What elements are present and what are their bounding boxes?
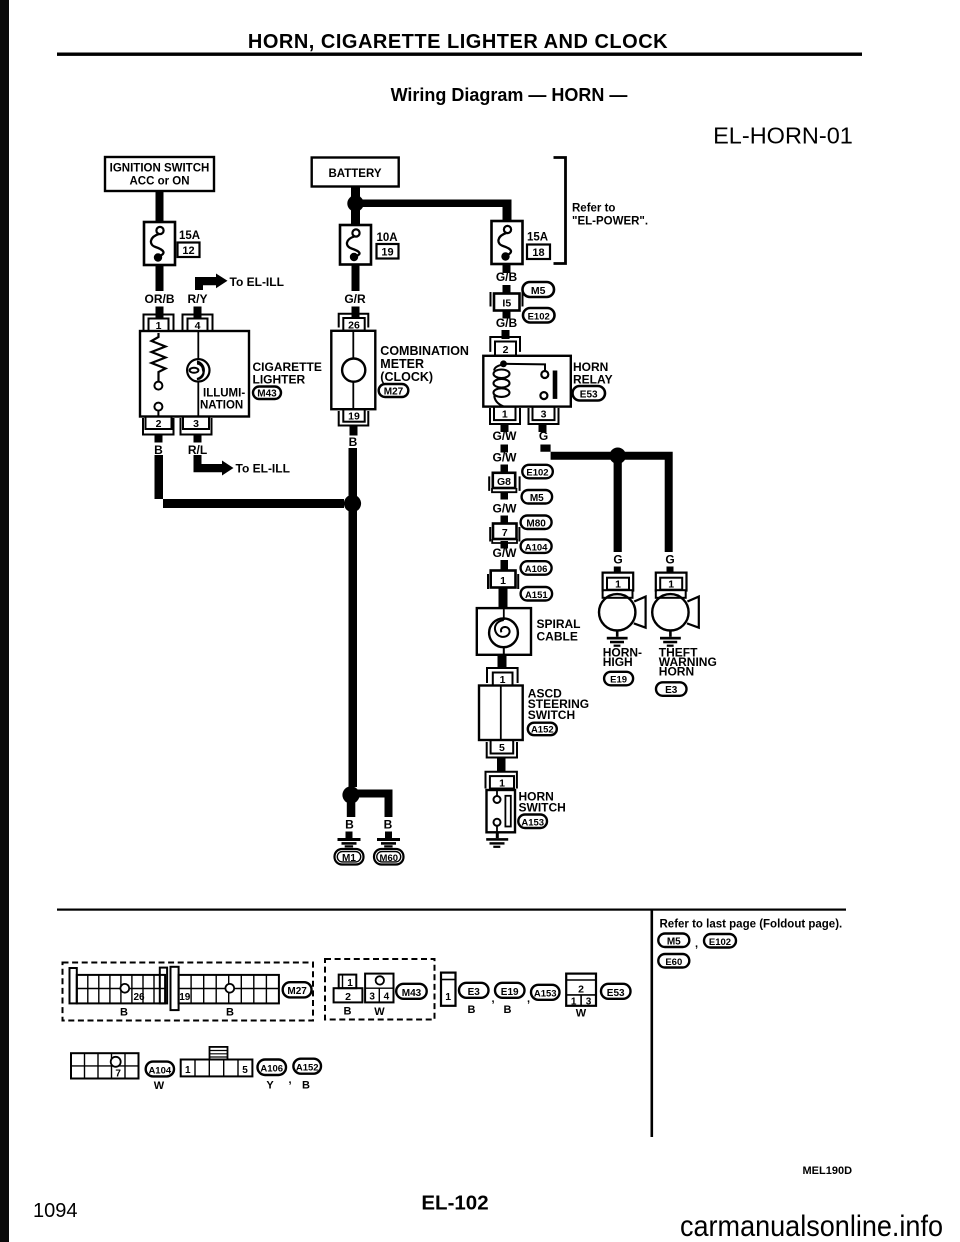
- spiral symbol: [489, 608, 518, 655]
- svg-text:B: B: [468, 1004, 476, 1016]
- wire label G/W 4: [493, 546, 518, 560]
- COMBINATION METER (CLOCK) label: [380, 344, 469, 384]
- svg-text:ACC or ON: ACC or ON: [129, 176, 189, 188]
- wire ignition to fuse: [156, 191, 164, 222]
- svg-text:B: B: [349, 435, 358, 449]
- svg-text:2: 2: [578, 984, 584, 996]
- stub to relay pin 2: [502, 330, 510, 339]
- connector oval E3: [656, 682, 687, 696]
- theft horn stub: [667, 567, 674, 574]
- A104 label W: [154, 1080, 165, 1092]
- svg-text:W: W: [576, 1008, 587, 1020]
- connector strip A106: [181, 1047, 253, 1077]
- wire label G/B upper: [496, 270, 518, 284]
- theft warning horn symbol: [652, 590, 699, 630]
- svg-text:1094: 1094: [33, 1200, 78, 1222]
- horn high symbol: [599, 590, 646, 630]
- wire label G/W 2: [493, 451, 518, 465]
- svg-text:G/W: G/W: [493, 451, 518, 465]
- To EL-ILL arrow lower: [194, 455, 290, 476]
- junction lighter-meter: [344, 495, 361, 512]
- connector oval E60 note: [658, 954, 689, 968]
- svg-text:3: 3: [369, 992, 375, 1003]
- connector oval M43 bottom: [396, 984, 427, 999]
- connector oval A106 bottom: [258, 1060, 287, 1076]
- fuse 18 labels: [527, 232, 550, 260]
- connector oval E102 top: [523, 308, 555, 323]
- junction bottom split: [342, 786, 359, 803]
- A152 label B: [302, 1080, 310, 1092]
- svg-text:M5: M5: [530, 493, 544, 504]
- svg-text:G8: G8: [497, 476, 511, 488]
- spiral cable box: [477, 608, 531, 655]
- ASCD steering switch box: [479, 686, 523, 741]
- G/W stub 2: [501, 465, 509, 473]
- branch to M60 ground: [356, 790, 393, 818]
- svg-text:M43: M43: [402, 988, 422, 999]
- ILLUMI-NATION label: [200, 388, 245, 412]
- svg-text:2: 2: [156, 418, 162, 430]
- svg-text:A152: A152: [531, 725, 554, 736]
- pin 1 horn relay: [490, 407, 520, 424]
- svg-text:5: 5: [242, 1065, 248, 1076]
- connector oval M5 top: [523, 282, 555, 297]
- svg-text:,: ,: [492, 993, 495, 1005]
- inline connector 7: [490, 524, 519, 544]
- meter B wire down: [349, 448, 358, 787]
- svg-text:E19: E19: [610, 675, 627, 686]
- svg-text:HIGH: HIGH: [603, 655, 633, 669]
- svg-text:A104: A104: [525, 542, 548, 553]
- svg-text:IGNITION SWITCH: IGNITION SWITCH: [110, 163, 210, 175]
- inline connector G8: [489, 473, 519, 492]
- svg-text:G: G: [665, 553, 674, 567]
- svg-text:1: 1: [500, 674, 506, 686]
- pin 3 stub: [194, 435, 202, 443]
- svg-text:E102: E102: [528, 312, 550, 323]
- wire fuse 19 down: [352, 265, 360, 292]
- ground horn high: [607, 631, 628, 647]
- svg-text:A153: A153: [534, 989, 557, 1000]
- ground horn switch: [486, 832, 508, 848]
- HORN RELAY label: [573, 360, 613, 387]
- svg-text:2: 2: [503, 344, 509, 356]
- svg-text:E102: E102: [526, 468, 548, 479]
- svg-text:B: B: [345, 818, 354, 832]
- stub to connector 1: [501, 560, 509, 570]
- svg-text:19: 19: [179, 992, 191, 1003]
- svg-text:W: W: [154, 1080, 165, 1092]
- CIGARETTE LIGHTER label: [253, 360, 322, 387]
- svg-text:SWITCH: SWITCH: [519, 801, 566, 815]
- svg-text:OR/B: OR/B: [145, 292, 175, 306]
- wire label G/B lower: [496, 316, 518, 330]
- svg-text:EL-HORN-01: EL-HORN-01: [713, 123, 853, 149]
- svg-text:E53: E53: [580, 390, 598, 401]
- svg-text:BATTERY: BATTERY: [328, 168, 381, 180]
- battery feed line to right fuse: [356, 200, 512, 223]
- connector M43 B label: [344, 1006, 352, 1018]
- fuse 19 labels: [377, 232, 399, 259]
- svg-text:B: B: [384, 818, 393, 832]
- svg-text:18: 18: [532, 247, 544, 259]
- ground theft horn: [660, 631, 681, 647]
- wire label B meter: [349, 435, 358, 449]
- svg-text:1: 1: [615, 579, 621, 591]
- svg-text:B: B: [302, 1080, 310, 1092]
- ignition switch box: [105, 157, 214, 191]
- connector grid M27 right: [171, 967, 279, 1010]
- stub to connector 7: [501, 516, 509, 524]
- svg-text:,: ,: [527, 993, 530, 1005]
- connector M43 W label: [374, 1006, 385, 1018]
- wire B from lighter to junction: [155, 455, 345, 508]
- svg-text:3: 3: [541, 409, 547, 421]
- pin 1 cigarette lighter stub: [156, 307, 164, 319]
- pin 3 relay stub: [539, 424, 547, 432]
- ground M1 symbol: [338, 832, 361, 848]
- stub below I5: [503, 311, 511, 319]
- wire label R/L: [188, 443, 207, 457]
- svg-text:EL-102: EL-102: [421, 1192, 488, 1215]
- bottom vertical divider: [651, 910, 654, 1137]
- page code EL-102: [421, 1192, 488, 1215]
- connector oval A153: [518, 815, 547, 829]
- svg-text:B: B: [154, 443, 163, 457]
- connector oval E3 bottom: [459, 983, 489, 998]
- svg-text:"EL-POWER".: "EL-POWER".: [572, 216, 648, 228]
- connector oval E102 mid: [522, 465, 553, 479]
- svg-text:M27: M27: [287, 986, 307, 997]
- stub to I5 connector: [503, 285, 511, 294]
- connector oval A152 bottom: [293, 1059, 321, 1074]
- connector M43 W part: [365, 974, 393, 1003]
- battery box: [312, 158, 399, 187]
- pin 1 horn high: [603, 573, 634, 592]
- pin 4 cigarette lighter stub: [194, 307, 202, 319]
- svg-text:1: 1: [502, 409, 508, 421]
- pin 19 stub: [350, 426, 358, 436]
- svg-text:A106: A106: [525, 564, 548, 575]
- pin 3 cigarette lighter: [181, 417, 212, 435]
- E3 label B: [468, 993, 495, 1016]
- wire label G/R: [344, 292, 366, 306]
- connector oval E53 bottom: [601, 984, 631, 999]
- diagram code EL-HORN-01: [713, 123, 853, 149]
- svg-text:1: 1: [445, 991, 451, 1003]
- G8 stub below: [501, 493, 509, 500]
- pin 1 ASCD: [487, 668, 518, 686]
- wire label B ground M60: [384, 818, 393, 832]
- svg-text:M5: M5: [531, 285, 546, 297]
- svg-text:MEL190D: MEL190D: [803, 1165, 853, 1177]
- svg-text:Refer to: Refer to: [572, 203, 615, 215]
- page title: [248, 31, 668, 53]
- svg-text:E60: E60: [665, 957, 682, 968]
- svg-text:G: G: [613, 553, 622, 567]
- svg-text:carmanualsonline.info: carmanualsonline.info: [680, 1210, 943, 1242]
- svg-text:10A: 10A: [377, 232, 398, 244]
- svg-text:W: W: [374, 1006, 385, 1018]
- svg-text:G/W: G/W: [493, 502, 518, 516]
- svg-text:,: ,: [695, 938, 698, 950]
- HORN SWITCH label: [519, 790, 566, 815]
- svg-text:1: 1: [499, 778, 505, 790]
- svg-text:1: 1: [185, 1065, 191, 1076]
- svg-text:Wiring Diagram — HORN —: Wiring Diagram — HORN —: [391, 85, 628, 105]
- G/W stub 1: [501, 445, 509, 453]
- left page edge black strip: [0, 0, 9, 1242]
- inline connector I5: [491, 292, 523, 311]
- pin 1 relay stub: [501, 424, 509, 432]
- resistor and switch inside lighter: [152, 333, 166, 417]
- HORN-HIGH label: [603, 645, 642, 669]
- svg-text:HORN, CIGARETTE LIGHTER AND CL: HORN, CIGARETTE LIGHTER AND CLOCK: [248, 31, 668, 53]
- pin 1 cigarette lighter: [144, 315, 174, 333]
- svg-text:A106: A106: [260, 1064, 283, 1075]
- svg-text:4: 4: [384, 992, 390, 1003]
- pin 26 stub: [352, 307, 360, 319]
- refer to EL-POWER bracket: [554, 158, 566, 264]
- pin 2 horn relay: [490, 337, 520, 356]
- connector single E3/E19: [441, 973, 456, 1006]
- refer to EL-POWER text: [572, 203, 648, 228]
- svg-text:To EL-ILL: To EL-ILL: [230, 275, 284, 289]
- connector E53 grid: [566, 974, 596, 1008]
- connector oval A151: [521, 587, 553, 601]
- pin 1 horn switch: [486, 772, 517, 790]
- pin 2 cigarette lighter: [143, 417, 174, 435]
- svg-text:B: B: [504, 1004, 512, 1016]
- To EL-ILL arrow upper: [195, 274, 284, 291]
- svg-text:RELAY: RELAY: [573, 373, 613, 387]
- pin 3 horn relay: [529, 407, 559, 424]
- svg-text:E53: E53: [607, 988, 625, 999]
- connector oval M5 mid: [522, 490, 553, 504]
- svg-text:E102: E102: [709, 937, 731, 948]
- svg-text:A153: A153: [521, 818, 544, 829]
- svg-text:M1: M1: [342, 853, 356, 864]
- svg-text:M5: M5: [667, 937, 681, 948]
- fuse 15A 12: [144, 222, 175, 265]
- wire label B ground M1: [345, 818, 354, 832]
- svg-text:A151: A151: [525, 590, 548, 601]
- connector oval M80: [521, 516, 552, 530]
- svg-text:B: B: [344, 1006, 352, 1018]
- svg-text:B: B: [226, 1007, 234, 1019]
- svg-text:5: 5: [499, 742, 505, 754]
- svg-text:M27: M27: [384, 387, 404, 398]
- svg-text:7: 7: [502, 527, 508, 539]
- wire fuse 18 down: [503, 264, 511, 273]
- svg-text:NATION: NATION: [200, 400, 243, 412]
- svg-text:G/B: G/B: [496, 316, 518, 330]
- grid M27 right label B: [226, 1007, 234, 1019]
- pin 4 cigarette lighter: [183, 315, 213, 333]
- svg-text:COMBINATION: COMBINATION: [380, 344, 469, 358]
- connector oval A153 bottom: [531, 985, 560, 1000]
- wire label OR/B: [145, 292, 175, 306]
- svg-text:15A: 15A: [527, 232, 548, 244]
- E53 label W: [576, 1008, 587, 1020]
- horn high stub: [614, 567, 621, 574]
- wire ASCD to horn switch: [497, 758, 506, 772]
- junction G wire: [610, 448, 626, 464]
- pin 5 ASCD: [487, 740, 517, 758]
- clock symbol inside meter: [342, 331, 365, 409]
- connector grid M27 left: [70, 968, 168, 1004]
- connector oval A104: [521, 539, 552, 553]
- connector oval M43: [253, 387, 281, 400]
- connector oval E53: [573, 386, 606, 401]
- connector oval E102 note: [704, 934, 736, 948]
- svg-text:SWITCH: SWITCH: [528, 708, 575, 722]
- svg-text:LIGHTER: LIGHTER: [253, 373, 306, 387]
- svg-text:12: 12: [182, 245, 194, 257]
- wire junction to fuse 19: [351, 208, 360, 225]
- svg-text:R/L: R/L: [188, 443, 207, 457]
- svg-text:M43: M43: [257, 389, 277, 400]
- svg-text:3: 3: [193, 418, 199, 430]
- svg-text:19: 19: [381, 247, 393, 259]
- wire label G/W 3: [493, 502, 518, 516]
- wire fuse to OR/B: [156, 265, 164, 291]
- svg-text:E3: E3: [468, 987, 481, 998]
- wire label G horn high: [613, 553, 622, 567]
- wire label G relay: [539, 429, 548, 443]
- connector grid A104: [71, 1053, 139, 1079]
- dashed group box M27: [63, 963, 314, 1021]
- wire connector 1 to spiral cable: [499, 588, 508, 609]
- connector oval M5 note: [658, 934, 698, 951]
- stub below connector 7: [501, 541, 509, 549]
- wire label G/W relay: [493, 429, 518, 443]
- wire label R/Y: [187, 292, 207, 306]
- ground connector M60: [374, 849, 404, 865]
- connector M43 B part: [334, 975, 363, 1003]
- horn relay box: [483, 356, 571, 407]
- svg-text:G: G: [539, 429, 548, 443]
- svg-text:E19: E19: [501, 987, 519, 998]
- E19 label B: [504, 993, 531, 1016]
- page number 1094: [33, 1200, 78, 1222]
- ground connector M1: [335, 849, 364, 865]
- figure code MEL190D: [803, 1165, 853, 1177]
- svg-text:CABLE: CABLE: [537, 630, 578, 644]
- pin 2 stub: [155, 435, 163, 443]
- wire below junction to M1: [347, 802, 356, 817]
- svg-text:3: 3: [586, 996, 592, 1007]
- svg-text:M80: M80: [526, 519, 546, 530]
- svg-text:G/W: G/W: [493, 429, 518, 443]
- branch to horn high: [614, 460, 622, 552]
- junction battery feed: [347, 195, 363, 211]
- connector oval A152: [528, 723, 557, 736]
- ASCD STEERING SWITCH label: [528, 687, 589, 722]
- svg-text:2: 2: [345, 991, 351, 1003]
- G wire from relay to horns: [540, 445, 672, 553]
- svg-text:I5: I5: [502, 298, 511, 310]
- connector oval A104 bottom: [146, 1062, 174, 1077]
- cigarette lighter box: [140, 331, 249, 417]
- svg-text:19: 19: [348, 411, 360, 423]
- svg-text:1: 1: [500, 575, 506, 587]
- svg-text:G/B: G/B: [496, 270, 518, 284]
- svg-text:1: 1: [668, 579, 674, 591]
- svg-text:26: 26: [133, 992, 145, 1003]
- connector oval A106: [521, 561, 552, 575]
- svg-text:G/R: G/R: [344, 292, 366, 306]
- SPIRAL CABLE label: [537, 617, 581, 644]
- svg-text:HORN: HORN: [659, 665, 694, 679]
- illumination lamp inside lighter: [187, 331, 209, 417]
- svg-text:Refer to last page (Foldout pa: Refer to last page (Foldout page).: [660, 919, 843, 931]
- connector oval E19 bottom: [495, 983, 525, 998]
- bottom separator line: [57, 909, 846, 911]
- svg-text:7: 7: [115, 1069, 121, 1080]
- svg-text:Y: Y: [266, 1080, 274, 1092]
- svg-text:B: B: [120, 1007, 128, 1019]
- svg-text:E3: E3: [665, 685, 678, 696]
- wire spiral to ASCD: [498, 655, 507, 669]
- horn switch box: [487, 790, 516, 832]
- relay coil and contact: [494, 360, 558, 406]
- connector oval M27 bottom: [283, 982, 312, 997]
- wire label B left: [154, 443, 163, 457]
- svg-text:R/Y: R/Y: [187, 292, 207, 306]
- svg-text:1: 1: [347, 978, 353, 989]
- wire label G theft horn: [665, 553, 674, 567]
- svg-text:ILLUMI-: ILLUMI-: [203, 388, 245, 400]
- svg-text:METER: METER: [380, 357, 424, 371]
- svg-text:1: 1: [571, 996, 577, 1007]
- combination meter box: [331, 331, 375, 409]
- svg-text:15A: 15A: [179, 230, 200, 242]
- dashed group box M43: [325, 959, 435, 1020]
- svg-text:G/W: G/W: [493, 546, 518, 560]
- A106 label Y: [266, 1074, 291, 1092]
- svg-text:(CLOCK): (CLOCK): [380, 370, 433, 384]
- svg-text:A152: A152: [296, 1063, 319, 1074]
- pin 19 combination meter: [339, 409, 369, 425]
- title rule: [57, 53, 862, 56]
- svg-text:,: ,: [289, 1074, 292, 1086]
- fuse 12 labels: [178, 230, 201, 257]
- svg-text:To EL-ILL: To EL-ILL: [236, 462, 290, 476]
- connector oval E19: [604, 672, 633, 686]
- fuse 15A 18: [492, 221, 523, 264]
- THEFT WARNING HORN label: [659, 645, 717, 678]
- refer to last page note: [660, 919, 843, 931]
- pin 26 combination meter: [339, 314, 369, 332]
- horn switch contacts: [494, 790, 511, 832]
- fuse 10A 19: [340, 225, 371, 265]
- ground M60 symbol: [377, 832, 400, 848]
- svg-text:M60: M60: [380, 853, 398, 864]
- wire battery down: [351, 187, 360, 198]
- pin 1 theft warning horn: [656, 573, 687, 592]
- connector oval M27: [379, 384, 409, 398]
- inline connector 1 spiral: [488, 571, 518, 590]
- svg-text:A104: A104: [148, 1065, 171, 1076]
- grid M27 left label B: [120, 1007, 128, 1019]
- watermark carmanualsonline.info: [680, 1210, 943, 1242]
- subtitle: [391, 85, 628, 105]
